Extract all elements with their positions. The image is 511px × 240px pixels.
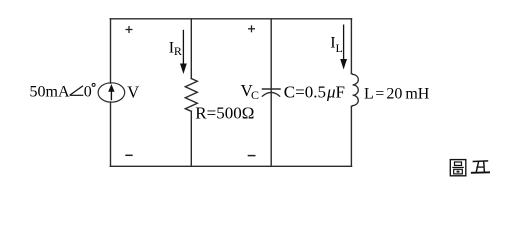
hanzi WU top stroke [473,160,489,163]
inductor L coil [351,74,358,107]
current source circle [98,83,125,102]
caption figure-five (CJK drawn as strokes) [450,160,466,176]
svg-text:L: L [336,41,343,55]
plus sign (top left) [126,26,133,33]
hanzi WU bottom stroke [471,171,490,174]
minus sign (bottom middle) [248,155,256,157]
hanzi TU inner dot [457,171,460,173]
plus sign (top middle) [248,25,255,32]
svg-text:R: R [174,44,182,58]
hanzi TU inner top box [455,162,462,165]
wire capacitor branch [270,19,272,167]
wire right above inductor [350,19,352,74]
current arrow IL [340,25,347,70]
current arrow IR [180,30,187,74]
angle symbol [70,86,84,96]
svg-text:C: C [251,88,259,102]
svg-text:0: 0 [84,84,92,101]
wire resistor branch bottom [190,111,192,166]
wire left below source [110,102,112,166]
hanzi TU outer box [450,160,466,176]
current source arrow [108,84,114,100]
hanzi WU middle bar [476,166,484,168]
wire resistor branch top [190,19,192,79]
wire left above source [110,19,112,83]
wire right below inductor [350,106,352,166]
hanzi WU left vertical [476,162,478,173]
degree circle [92,83,95,86]
capacitor C top plate [263,88,281,90]
capacitor C bottom curved plate [262,92,279,96]
svg-text:V: V [127,82,139,101]
hanzi TU inner bottom box [454,169,463,174]
svg-text:50mA: 50mA [30,84,70,101]
svg-text:C=0.5μF: C=0.5μF [284,82,345,101]
hanzi TU middle bar [452,166,464,168]
minus sign (bottom left) [125,154,132,156]
svg-text:R=500Ω: R=500Ω [195,104,254,123]
wire top [110,18,351,20]
svg-text:L=20mH: L=20mH [364,86,430,103]
resistor R [185,79,197,112]
hanzi WU right vertical [483,161,486,172]
wire bottom [110,165,351,167]
